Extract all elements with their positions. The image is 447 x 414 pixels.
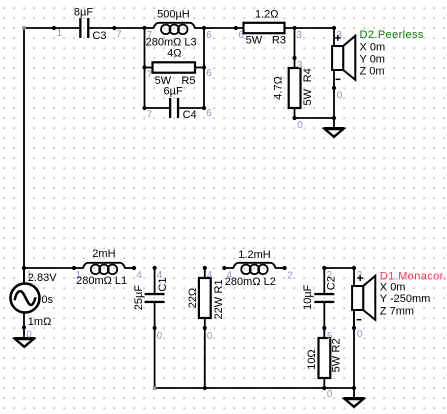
svg-text:8µF: 8µF <box>74 7 93 19</box>
svg-text:22W: 22W <box>213 296 225 319</box>
svg-text:25µF: 25µF <box>133 285 145 311</box>
svg-text:R4: R4 <box>302 68 314 82</box>
svg-text:Y -250mm: Y -250mm <box>380 293 431 305</box>
svg-text:4: 4 <box>136 270 142 281</box>
svg-text:0: 0 <box>157 331 163 342</box>
svg-text:R1: R1 <box>213 279 225 293</box>
svg-text:7: 7 <box>116 30 121 41</box>
svg-text:C4: C4 <box>183 109 197 121</box>
svg-text:7: 7 <box>147 109 152 120</box>
svg-text:R5: R5 <box>181 75 195 87</box>
svg-text:0: 0 <box>207 331 213 342</box>
svg-text:1.2Ω: 1.2Ω <box>255 9 279 21</box>
svg-text:X 0m: X 0m <box>360 41 386 53</box>
svg-text:0s: 0s <box>41 294 53 306</box>
svg-text:D2.Peerless: D2.Peerless <box>360 29 424 41</box>
svg-text:R3: R3 <box>272 35 286 47</box>
svg-text:280mΩ L2: 280mΩ L2 <box>225 276 276 288</box>
svg-text:7: 7 <box>147 69 152 80</box>
svg-text:6: 6 <box>206 30 212 41</box>
svg-text:2: 2 <box>287 270 292 281</box>
svg-text:6: 6 <box>206 108 212 119</box>
svg-text:Y 0m: Y 0m <box>360 53 385 65</box>
svg-text:2mH: 2mH <box>92 248 115 260</box>
svg-text:C1: C1 <box>157 278 169 292</box>
svg-text:10µF: 10µF <box>302 284 314 310</box>
svg-text:4: 4 <box>207 270 213 281</box>
svg-text:1mΩ: 1mΩ <box>28 316 52 328</box>
svg-text:4.7Ω: 4.7Ω <box>273 76 285 100</box>
svg-text:6: 6 <box>206 68 212 79</box>
svg-text:0: 0 <box>297 120 303 131</box>
svg-text:D1.Monacor.: D1.Monacor. <box>380 270 447 282</box>
svg-text:5W: 5W <box>302 88 314 105</box>
svg-text:1.2mH: 1.2mH <box>238 249 270 261</box>
svg-text:500µH: 500µH <box>157 8 190 20</box>
svg-text:3: 3 <box>296 30 302 41</box>
svg-text:5W: 5W <box>331 355 343 372</box>
svg-text:4Ω: 4Ω <box>167 47 181 59</box>
svg-text:2.83V: 2.83V <box>28 272 57 284</box>
svg-text:C3: C3 <box>92 30 106 42</box>
svg-text:Z 7mm: Z 7mm <box>380 305 414 317</box>
svg-text:0: 0 <box>337 91 343 102</box>
svg-text:5W: 5W <box>246 35 263 47</box>
svg-text:280mΩ L1: 280mΩ L1 <box>76 275 127 287</box>
svg-text:C2: C2 <box>326 276 338 290</box>
svg-text:Z 0m: Z 0m <box>360 65 385 77</box>
svg-text:10Ω: 10Ω <box>306 349 318 369</box>
svg-text:0: 0 <box>327 389 333 400</box>
svg-text:6: 6 <box>238 30 244 41</box>
svg-text:6µF: 6µF <box>164 85 183 97</box>
svg-text:0: 0 <box>357 329 363 340</box>
svg-text:R2: R2 <box>331 338 343 352</box>
svg-text:22Ω: 22Ω <box>187 288 199 308</box>
svg-text:1: 1 <box>57 28 62 39</box>
svg-text:X 0m: X 0m <box>380 282 406 294</box>
svg-text:0: 0 <box>26 330 32 341</box>
